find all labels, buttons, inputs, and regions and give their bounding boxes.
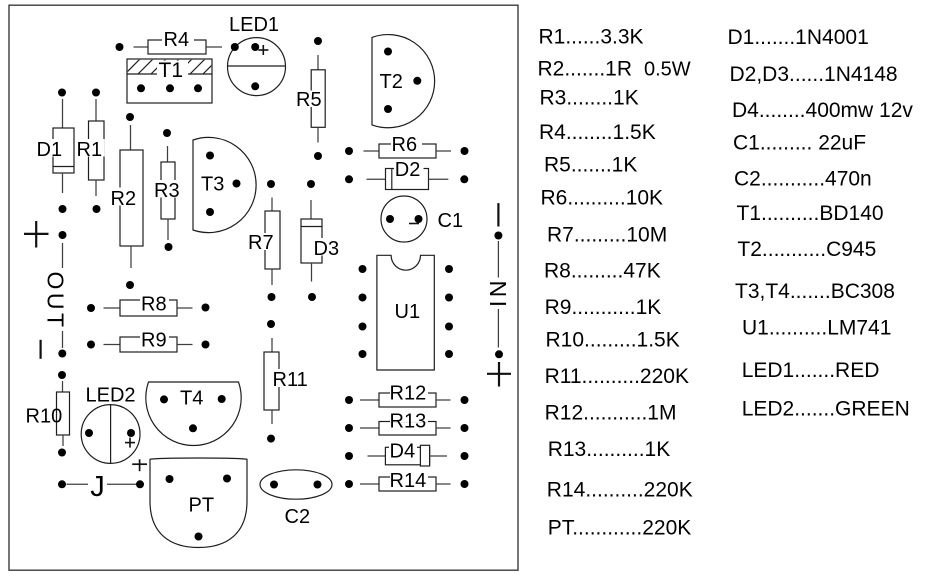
U1 pin 7 — [445, 294, 453, 302]
node below D1 — [59, 205, 67, 213]
T3 pad 3 — [233, 180, 241, 188]
svg-text:R6..........10K: R6..........10K — [541, 187, 664, 210]
node J left — [58, 480, 66, 488]
node right of R13 — [461, 424, 469, 432]
wire D3 bottom lead — [311, 263, 313, 282]
svg-text:R14..........220K: R14..........220K — [547, 479, 693, 502]
svg-text:PT............220K: PT............220K — [548, 517, 692, 540]
U1 pin 1 — [359, 265, 367, 273]
wire R8 left lead — [104, 307, 121, 309]
node right of R9 — [202, 341, 210, 349]
svg-text:T2: T2 — [380, 71, 403, 93]
svg-text:R7: R7 — [248, 232, 274, 254]
svg-text:U1..........LM741: U1..........LM741 — [742, 317, 891, 340]
svg-text:C2...........470n: C2...........470n — [734, 167, 872, 190]
PT pad 1 — [166, 475, 174, 483]
svg-text:R6: R6 — [392, 134, 418, 156]
LED LED1 — [228, 38, 286, 96]
resistor R1 — [76, 121, 105, 180]
diode D4 — [385, 441, 429, 467]
node above R11 — [267, 320, 275, 328]
resistor R6 — [379, 134, 436, 158]
svg-text:D2: D2 — [395, 159, 421, 181]
svg-text:R13..........1K: R13..........1K — [548, 438, 671, 461]
wire D4 right lead — [430, 455, 447, 457]
wire R7 top lead — [271, 198, 273, 212]
wire IN upper — [497, 241, 499, 278]
IN node upper — [494, 232, 502, 240]
wire R2 top lead — [130, 125, 132, 150]
node right of R6 — [461, 147, 469, 155]
PT pad 3 — [195, 533, 203, 541]
svg-text:R14: R14 — [390, 470, 427, 492]
node left of D4 — [345, 452, 353, 460]
resistor R5 — [296, 70, 326, 128]
C1 pad 1 — [386, 215, 394, 223]
transistor T3 — [193, 137, 256, 232]
wire R10 bottom lead — [62, 435, 64, 446]
node right of R8 — [202, 304, 210, 312]
svg-text:U1: U1 — [395, 301, 421, 323]
svg-text:C1: C1 — [438, 210, 464, 232]
node below R11 — [267, 435, 275, 443]
plus mark near LED2 — [132, 463, 147, 465]
C1 minus mark — [409, 223, 419, 225]
svg-text:LED1: LED1 — [229, 14, 279, 36]
T1 pad 1 — [137, 84, 145, 92]
U1 pin 6 — [445, 323, 453, 331]
node left of R13 — [345, 424, 353, 432]
node right of D4 — [461, 452, 469, 460]
svg-text:R9: R9 — [141, 330, 167, 352]
LED2 plus mark — [125, 442, 135, 444]
node above R2 — [126, 113, 134, 121]
svg-text:R12: R12 — [390, 383, 427, 405]
node below R5 — [314, 152, 322, 160]
svg-text:J: J — [90, 471, 105, 503]
PT pad 2 — [223, 475, 231, 483]
U1 pin 4 — [359, 350, 367, 358]
capacitor C2 — [260, 470, 332, 499]
wire R12 right lead — [436, 399, 451, 401]
resistor R14 — [379, 469, 436, 492]
OUT minus mark — [39, 340, 41, 359]
OUT plus mark — [24, 233, 49, 235]
svg-text:LED1.......RED: LED1.......RED — [742, 359, 880, 382]
svg-text:T1: T1 — [159, 59, 184, 82]
node left of R14 — [345, 480, 353, 488]
transistor T4 — [146, 382, 241, 446]
resistor R7 — [248, 211, 281, 269]
T4 pad 3 — [189, 424, 197, 432]
diode D2 — [386, 159, 429, 190]
LED2 pad 2 — [127, 429, 135, 437]
wire OUT lower — [62, 331, 64, 348]
U1 pin 3 — [359, 323, 367, 331]
LED LED2 — [81, 405, 140, 464]
wire R8 right lead — [177, 307, 193, 309]
transistor T1 — [112, 59, 218, 103]
wire R6 left lead — [364, 150, 380, 152]
node above R7 — [267, 180, 275, 188]
U1 pin 2 — [359, 294, 367, 302]
wire IN lower — [497, 309, 499, 348]
svg-text:D1: D1 — [37, 139, 63, 161]
resistor R2 — [110, 150, 144, 246]
node below R7 — [268, 293, 276, 301]
C1 pad 2 — [415, 215, 423, 223]
svg-text:C2: C2 — [285, 506, 311, 528]
wire R3 top lead — [167, 146, 169, 162]
resistor R9 — [120, 330, 177, 353]
wire R13 left lead — [360, 427, 379, 429]
wire R2 bottom lead — [130, 246, 132, 268]
wire D3 top lead — [310, 200, 312, 219]
svg-text:R11..........220K: R11..........220K — [545, 365, 689, 388]
wire R4 left lead — [134, 46, 149, 48]
wire R12 left lead — [360, 399, 379, 401]
T2 pad 3 — [384, 105, 392, 113]
node above D3 — [307, 180, 315, 188]
wire R3 bottom lead — [167, 219, 169, 240]
LED1 anode pad — [251, 43, 259, 51]
wire D4 left lead — [368, 455, 386, 457]
node below D3 — [308, 293, 316, 301]
OUT node lower — [58, 350, 66, 358]
T1 pad 3 — [194, 84, 202, 92]
svg-text:R12...........1M: R12...........1M — [545, 402, 677, 425]
svg-text:R10: R10 — [26, 406, 63, 428]
node left of R8 — [87, 304, 95, 312]
node below R2 — [126, 281, 134, 289]
svg-text:D4: D4 — [390, 441, 416, 463]
transistor T2 — [372, 35, 435, 128]
wire R11 top lead — [271, 338, 273, 352]
svg-text:T4: T4 — [180, 387, 203, 409]
U1 pin 8 — [445, 265, 453, 273]
diode D1 — [36, 128, 75, 173]
node above R1 — [92, 89, 100, 97]
node left of D2 — [345, 175, 353, 183]
node right of R12 — [461, 396, 469, 404]
svg-text:C1......... 22uF: C1......... 22uF — [733, 131, 866, 154]
node right of R14 — [461, 480, 469, 488]
resistor R8 — [120, 294, 177, 317]
wire R6 right lead — [436, 150, 451, 152]
wire J left — [67, 483, 89, 485]
wire D2 right lead — [429, 178, 449, 180]
svg-text:D2,D3......1N4148: D2,D3......1N4148 — [730, 63, 898, 86]
op-amp U1 — [377, 255, 434, 370]
wire R7 bottom lead — [271, 269, 273, 285]
wire R14 right lead — [436, 483, 451, 485]
potentiometer PT — [150, 458, 247, 547]
node left of R12 — [345, 396, 353, 404]
svg-text:R1: R1 — [77, 139, 103, 161]
wire D1 top lead — [62, 99, 64, 128]
T3 pad 1 — [206, 152, 214, 160]
resistor R10 — [25, 392, 70, 435]
OUT node upper — [59, 231, 67, 239]
svg-text:D3: D3 — [314, 238, 340, 260]
wire R9 left lead — [104, 344, 121, 346]
wire R1 top lead — [95, 99, 97, 121]
LED1 plus mark — [258, 49, 268, 51]
T3 pad 2 — [206, 208, 214, 216]
node left of R9 — [87, 341, 95, 349]
svg-text:R13: R13 — [390, 411, 427, 433]
LED1 rim pad — [231, 43, 239, 51]
T1 pad 2 — [166, 84, 174, 92]
svg-text:R3: R3 — [154, 180, 180, 202]
resistor R13 — [379, 411, 436, 436]
capacitor C1 — [381, 196, 427, 242]
wire OUT upper — [62, 243, 64, 268]
svg-text:R1......3.3K: R1......3.3K — [539, 25, 644, 48]
wire D1 bottom lead — [62, 173, 64, 193]
svg-text:D1.......1N4001: D1.......1N4001 — [728, 26, 869, 49]
svg-text:R5: R5 — [296, 89, 322, 111]
svg-text:R4: R4 — [164, 29, 190, 51]
wire R5 top lead — [317, 55, 319, 70]
svg-text:R5.......1K: R5.......1K — [544, 153, 637, 176]
U1 pin 5 — [445, 350, 453, 358]
svg-text:IN: IN — [485, 277, 511, 307]
resistor R4 — [148, 29, 206, 54]
svg-text:T1..........BD140: T1..........BD140 — [737, 202, 884, 225]
wire R13 right lead — [436, 427, 451, 429]
node above R10 — [58, 371, 66, 379]
diode D3 — [301, 219, 341, 263]
T4 pad 1 — [160, 395, 168, 403]
svg-text:R2.......1R: R2.......1R — [538, 58, 633, 81]
node below R3 — [165, 243, 173, 251]
LED2 pad 1 — [85, 429, 93, 437]
wire R10 top lead — [62, 381, 64, 392]
svg-text:R8.........47K: R8.........47K — [544, 259, 661, 282]
svg-text:D4........400mw 12v: D4........400mw 12v — [732, 99, 913, 122]
svg-text:T2...........C945: T2...........C945 — [737, 238, 876, 261]
wire R5 bottom lead — [317, 127, 319, 142]
wire R1 bottom lead — [95, 180, 97, 196]
IN node lower — [495, 350, 503, 358]
wire R11 bottom lead — [271, 410, 273, 424]
resistor R11 — [264, 352, 310, 410]
node left of R6 — [345, 147, 353, 155]
IN minus mark — [497, 203, 499, 226]
node above R3 — [163, 129, 171, 137]
svg-text:R8: R8 — [141, 294, 167, 316]
wire R4 right lead — [206, 46, 222, 48]
LED1 cathode pad — [251, 82, 259, 90]
svg-text:R7.........10M: R7.........10M — [547, 223, 667, 246]
svg-text:R2: R2 — [111, 188, 137, 210]
svg-text:T3: T3 — [201, 174, 224, 196]
svg-text:R9...........1K: R9...........1K — [545, 296, 662, 319]
node left of R4 — [116, 43, 124, 51]
T2 pad 2 — [413, 77, 421, 85]
wire J right — [107, 483, 137, 485]
C2 pad 1 — [270, 481, 278, 489]
wire D2 left lead — [367, 178, 386, 180]
board outline — [9, 5, 518, 570]
wire R9 right lead — [177, 344, 193, 346]
svg-text:R3........1K: R3........1K — [540, 86, 639, 109]
resistor R3 — [154, 162, 183, 219]
T4 pad 2 — [218, 395, 226, 403]
T2 pad 1 — [384, 48, 392, 56]
wire R14 left lead — [360, 483, 379, 485]
resistor R12 — [379, 383, 436, 408]
svg-text:OUT: OUT — [43, 272, 69, 331]
svg-text:T3,T4.......BC308: T3,T4.......BC308 — [735, 280, 895, 303]
svg-text:0.5W: 0.5W — [644, 59, 691, 81]
node below R10 — [58, 449, 66, 457]
node above R5 — [314, 37, 322, 45]
svg-text:LED2.......GREEN: LED2.......GREEN — [742, 397, 910, 420]
C2 pad 2 — [314, 481, 322, 489]
svg-text:R11: R11 — [273, 369, 308, 391]
node above D1 — [58, 89, 66, 97]
svg-text:LED2: LED2 — [86, 385, 136, 407]
svg-text:R4........1.5K: R4........1.5K — [539, 121, 656, 144]
IN plus mark — [487, 373, 511, 375]
node below R1 — [93, 205, 101, 213]
svg-text:PT: PT — [189, 495, 215, 517]
node right of D2 — [460, 175, 468, 183]
svg-text:R10.........1.5K: R10.........1.5K — [546, 329, 680, 352]
node J right — [136, 480, 144, 488]
